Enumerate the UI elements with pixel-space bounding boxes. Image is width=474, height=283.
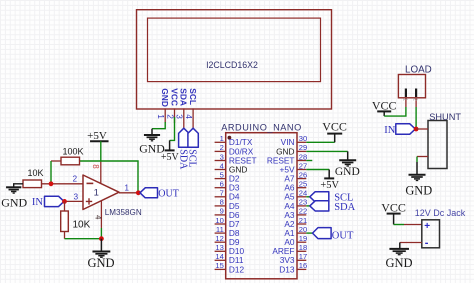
net tag SCL below LCD pin4 (188, 128, 198, 147)
svg-text:12: 12 (215, 234, 223, 243)
Arduino right pin 21 stub (297, 223, 306, 225)
wire SHUNT bottom to ground (416, 157, 418, 163)
junction node shunt top (414, 127, 419, 132)
svg-text:GND: GND (1, 195, 27, 209)
svg-text:+5V: +5V (320, 180, 339, 191)
svg-text:4: 4 (184, 114, 194, 119)
svg-text:IN: IN (384, 125, 395, 136)
svg-text:+5V: +5V (161, 152, 180, 163)
svg-text:100K: 100K (63, 147, 84, 157)
svg-text:5: 5 (220, 170, 224, 179)
op-amp plus sign (86, 198, 92, 204)
resistor R1 left wire to ground (14, 184, 23, 188)
Arduino right pin 23 stub (297, 205, 306, 207)
op-amp pin 8 stub (100, 161, 102, 183)
wire LOAD pin 2 down to shunt node (415, 107, 417, 129)
Arduino right pin 30 stub (297, 141, 306, 143)
net tag SCL (Arduino A5) (310, 192, 329, 202)
resistor R2 left stub (51, 160, 61, 162)
VCC power flag (load) bar (377, 110, 391, 112)
svg-text:SCL: SCL (188, 88, 198, 105)
svg-text:GND: GND (385, 256, 412, 270)
op-amp output wire (119, 192, 140, 194)
Arduino left pin 8 stub (215, 205, 226, 207)
Arduino right pin 18 stub (297, 250, 306, 252)
svg-text:1: 1 (124, 183, 129, 192)
svg-text:17: 17 (299, 252, 307, 261)
svg-text:+: + (424, 221, 430, 232)
svg-text:1: 1 (156, 114, 166, 119)
svg-text:2: 2 (412, 98, 418, 101)
Arduino right pin 29 stub (297, 150, 306, 152)
+5V flag stem below LCD pin2 (169, 140, 171, 150)
Arduino left pin 15 stub (215, 268, 226, 270)
ground stem right of Arduino (347, 151, 349, 160)
Arduino right pin 17 stub (297, 259, 306, 261)
resistor R2 100K body (61, 157, 80, 165)
LOAD pin 1 bar (405, 89, 407, 98)
svg-text:30: 30 (299, 134, 307, 143)
wire R3 bottom to ground node (65, 238, 102, 240)
svg-text:VCC: VCC (322, 119, 347, 133)
wire +5V flag down to pin 8 (100, 141, 102, 161)
svg-text:25: 25 (299, 180, 307, 189)
ground flag below LCD pin1 (144, 134, 160, 136)
Arduino right pin 26 stub (297, 178, 306, 180)
Arduino left pin 11 stub (215, 232, 226, 234)
wire R1 right end to op-amp pin 2 (42, 183, 84, 185)
svg-text:SHUNT: SHUNT (429, 112, 461, 122)
wire feedback from 100K to output node (80, 161, 139, 193)
SHUNT top pin stub (416, 128, 428, 130)
wire Arduino GND pin 29 to ground (306, 150, 347, 152)
svg-text:I2CLCD16X2: I2CLCD16X2 (206, 60, 258, 70)
svg-text:6: 6 (220, 180, 224, 189)
svg-text:26: 26 (299, 170, 307, 179)
svg-text:16: 16 (299, 261, 307, 270)
svg-text:GND: GND (160, 88, 170, 107)
svg-text:D12: D12 (229, 264, 245, 274)
svg-text:28: 28 (299, 152, 307, 161)
svg-text:19: 19 (299, 234, 307, 243)
svg-text:SCL: SCL (187, 149, 198, 167)
svg-text:2: 2 (220, 143, 224, 152)
+5V power flag above op-amp (90, 140, 109, 142)
net tag IN (shunt node) (396, 124, 416, 134)
junction node inverting input (49, 181, 54, 186)
Arduino right pin 27 stub (297, 169, 306, 171)
svg-text:GND: GND (405, 183, 432, 197)
svg-text:4: 4 (94, 215, 103, 220)
net tag SDA below LCD pin3 (179, 128, 189, 147)
Arduino left pin 4 stub (215, 169, 226, 171)
op-amp pin 4 stub (100, 201, 102, 228)
VCC flag stem (Arduino VIN) (334, 134, 336, 143)
svg-text:3: 3 (175, 114, 185, 119)
svg-text:20: 20 (299, 225, 307, 234)
op-amp minus sign (87, 182, 94, 184)
svg-text:29: 29 (299, 143, 307, 152)
svg-text:SDA: SDA (334, 202, 355, 213)
Arduino left pin 6 stub (215, 187, 226, 189)
svg-text:VCC: VCC (169, 88, 179, 106)
svg-text:IN: IN (32, 197, 43, 208)
svg-text:23: 23 (299, 198, 307, 207)
ground flag below dc jack (389, 248, 409, 250)
wire LCD pin1 to GND (152, 122, 165, 129)
svg-text:7: 7 (220, 189, 224, 198)
svg-text:1: 1 (402, 98, 408, 101)
svg-text:1: 1 (220, 134, 224, 143)
resistor R1 10K body (23, 180, 42, 188)
wire VIN to VCC flag (306, 141, 334, 143)
wire Arduino RESET pin 28 stub (306, 160, 312, 162)
svg-text:ARDUINO_NANO: ARDUINO_NANO (221, 123, 302, 133)
Arduino left pin 9 stub (215, 214, 226, 216)
LCD pin 2 VCC stub (174, 108, 176, 123)
svg-text:VCC: VCC (381, 201, 406, 215)
Arduino left pin 3 stub (215, 160, 226, 162)
Arduino left pin 10 stub (215, 223, 226, 225)
junction node op-amp output (136, 190, 141, 195)
wire LCD pin2 to +5V (170, 117, 175, 140)
LOAD pin 1 stub (405, 98, 407, 107)
jack minus pin wire (400, 242, 422, 244)
Arduino left pin 13 stub (215, 250, 226, 252)
svg-text:SDA: SDA (179, 88, 189, 106)
LCD module U3 I2CLCD16X2 outer body (137, 10, 332, 109)
wire IN tag to op-amp pin 3 (64, 200, 83, 202)
resistor R3 10K body (vertical) (61, 211, 69, 232)
Arduino left pin 14 stub (215, 259, 226, 261)
LCD screen inner rectangle (148, 18, 321, 82)
op-amp pin 4 wire to ground node (100, 228, 102, 239)
wire Arduino +5V pin 27 to +5V flag (306, 169, 329, 171)
jack plus pin stub (404, 224, 422, 226)
Arduino right pin 19 stub (297, 241, 306, 243)
VCC power flag (dc jack) bar (387, 213, 401, 215)
net tag SDA (Arduino A4) (310, 201, 329, 211)
ground flag below op-amp (92, 251, 110, 253)
ground flag right of Arduino (339, 159, 356, 161)
Arduino right pin 16 stub (297, 268, 306, 270)
Arduino left pin 12 stub (215, 241, 226, 243)
wire VCC flag to LOAD pin 1 (384, 107, 406, 116)
svg-text:14: 14 (215, 252, 223, 261)
net tag OUT (op-amp output) (140, 188, 158, 198)
svg-text:4: 4 (220, 161, 224, 170)
VCC flag stem (dc jack) (393, 214, 395, 225)
dc jack J1 body (422, 220, 440, 248)
ground stem below shunt (416, 162, 418, 175)
svg-text:-: - (425, 237, 429, 249)
wire Arduino A1 to OUT tag (306, 232, 312, 234)
VCC power flag (Arduino VIN) bar (327, 133, 342, 135)
Arduino Nano U2 body (226, 133, 297, 279)
connector LOAD body (398, 75, 425, 98)
wire ground node to ground flag (100, 239, 102, 252)
Arduino right pin 28 stub (297, 160, 306, 162)
svg-text:8: 8 (220, 198, 224, 207)
svg-text:OUT: OUT (332, 230, 354, 241)
svg-text:GND: GND (87, 256, 114, 270)
Arduino right pin 22 stub (297, 214, 306, 216)
svg-text:13: 13 (215, 243, 223, 252)
net tag OUT (Arduino A1) (313, 228, 332, 239)
ground flag below shunt (409, 174, 426, 176)
svg-text:21: 21 (299, 216, 307, 225)
svg-text:GND: GND (335, 166, 360, 178)
ground stem below LCD pin1 (151, 129, 153, 135)
svg-text:11: 11 (216, 225, 224, 234)
svg-text:OUT: OUT (158, 188, 179, 199)
Arduino left pin 2 stub (215, 150, 226, 152)
LOAD pin 2 bar (415, 89, 417, 98)
svg-text:10: 10 (215, 216, 223, 225)
ground flag left of R1 (6, 186, 21, 188)
VCC flag stem (load) (383, 111, 385, 116)
svg-text:12V Dc Jack: 12V Dc Jack (415, 208, 466, 218)
svg-text:D13: D13 (279, 264, 295, 274)
LCD pin 3 SDA stub (183, 108, 185, 128)
svg-text:LOAD: LOAD (405, 64, 432, 75)
svg-text:10K: 10K (28, 168, 44, 178)
svg-text:18: 18 (299, 243, 307, 252)
Arduino left pin 5 stub (215, 178, 226, 180)
+5V power flag (Arduino) bar (324, 177, 334, 179)
svg-text:2: 2 (73, 174, 78, 183)
svg-text:LM358GN: LM358GN (105, 208, 142, 217)
+5V flag stem (Arduino) (328, 170, 330, 179)
wire Arduino A4 to SDA tag (306, 205, 310, 207)
+5V power flag below LCD pin2 bar (165, 149, 175, 151)
Arduino left pin 1 stub (215, 141, 226, 143)
svg-text:3: 3 (220, 152, 224, 161)
resistor R3 top stub (64, 201, 66, 211)
svg-text:24: 24 (299, 189, 307, 198)
svg-text:10K: 10K (73, 220, 91, 231)
op-amp U1 triangle (83, 175, 119, 210)
Arduino right pin 20 stub (297, 232, 306, 234)
LCD pin 1 GND stub (164, 108, 166, 123)
svg-text:8: 8 (91, 164, 100, 169)
resistor R3 bottom stub (64, 232, 66, 239)
Arduino right pin 24 stub (297, 196, 306, 198)
LCD pin 4 SCL stub (192, 108, 194, 128)
wire VCC flag to jack plus (394, 224, 404, 226)
LOAD pin 2 stub (415, 98, 417, 107)
svg-text:3: 3 (74, 192, 79, 201)
Arduino left pin 7 stub (215, 196, 226, 198)
svg-text:27: 27 (299, 161, 307, 170)
junction node non-inverting input (62, 199, 67, 204)
net tag IN (op-amp input) (45, 196, 65, 206)
svg-text:22: 22 (299, 207, 307, 216)
svg-text:+5V: +5V (87, 130, 107, 142)
svg-text:9: 9 (220, 207, 224, 216)
Arduino right pin 25 stub (297, 187, 306, 189)
svg-text:1: 1 (94, 188, 99, 199)
svg-text:15: 15 (215, 261, 223, 270)
ground stem below dc jack (399, 243, 401, 249)
junction node op-amp ground (99, 236, 104, 241)
Arduino pin 1 marker dot (228, 136, 232, 140)
wire Arduino A5 to SCL tag (306, 196, 310, 198)
wire 100K left end down to inverting node (50, 161, 52, 184)
resistor SHUNT body (428, 121, 447, 169)
SHUNT bottom pin stub (417, 156, 428, 158)
